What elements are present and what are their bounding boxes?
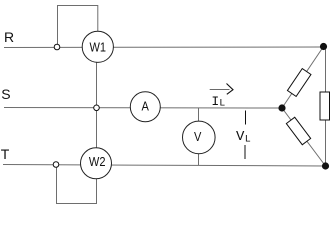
svg-text:V: V (236, 129, 245, 145)
svg-text:A: A (142, 98, 150, 113)
svg-text:W1: W1 (90, 40, 107, 55)
svg-text:I: I (211, 94, 219, 109)
svg-text:R: R (4, 29, 14, 45)
svg-text:L: L (245, 135, 251, 146)
svg-text:S: S (1, 86, 10, 102)
svg-text:L: L (219, 99, 225, 110)
svg-text:T: T (1, 146, 10, 162)
svg-text:V: V (194, 129, 201, 144)
svg-text:W2: W2 (89, 154, 106, 169)
